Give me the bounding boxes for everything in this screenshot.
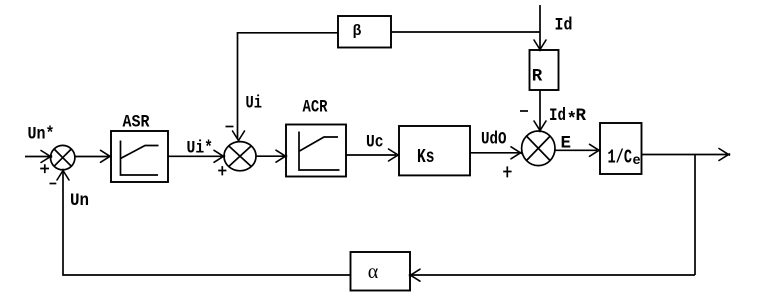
svg-text:Id: Id — [549, 106, 566, 126]
svg-text:E: E — [561, 134, 572, 154]
svg-text:e: e — [633, 154, 641, 169]
svg-text:R: R — [576, 106, 587, 126]
svg-text:1/C: 1/C — [608, 147, 633, 169]
svg-text:Uc: Uc — [366, 133, 384, 153]
svg-text:Ui*: Ui* — [187, 139, 214, 159]
svg-text:Un: Un — [70, 191, 89, 211]
svg-text:R: R — [532, 67, 543, 87]
svg-text:Id: Id — [555, 16, 573, 36]
svg-text:α: α — [368, 261, 379, 283]
svg-text:β: β — [353, 24, 362, 40]
svg-text:Un*: Un* — [28, 125, 55, 145]
svg-text:Ui: Ui — [246, 94, 263, 114]
svg-text:ASR: ASR — [123, 113, 150, 133]
svg-text:UdO: UdO — [481, 129, 507, 149]
svg-text:ACR: ACR — [303, 97, 328, 117]
svg-text:Ks: Ks — [417, 146, 435, 168]
